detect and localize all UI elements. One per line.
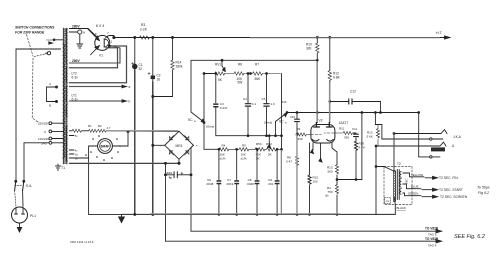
LT1 labels [72,94,79,102]
svg-text:R1: R1 [88,124,92,128]
grid resistor R10b 330 right [337,131,354,134]
HT rail [114,37,446,39]
svg-text:J.K.A: J.K.A [453,135,462,139]
tap 240 [49,141,52,144]
T2 primary winding [394,171,395,202]
svg-text:C12: C12 [350,90,356,94]
grid capacitor C11 [355,133,357,141]
resistor R12 6.8K anode feed right [329,38,331,71]
grey lead label [206,125,214,129]
jack JKA break contact [382,138,443,140]
capacitor C1 32 [134,70,136,214]
svg-text:R9: R9 [297,127,301,131]
svg-text:YELLOW: YELLOW [411,173,423,177]
wire bottom 280V tap to V1 anode 2 [69,46,120,64]
svg-text:R6: R6 [238,63,242,67]
svg-text:16: 16 [157,78,161,82]
svg-text:V2: V2 [319,119,323,123]
centre-tap ground [77,34,83,48]
capacitor C5 1.0 [266,74,268,136]
svg-text:S.A.: S.A. [26,184,32,188]
double triode V2 12AT7 [311,125,335,144]
wire mains live to switch [16,49,61,181]
PRI tag [385,198,391,204]
svg-text:T2 SEC. FIN.: T2 SEC. FIN. [439,176,459,180]
svg-text:·0019: ·0019 [226,182,234,186]
svg-text:5K: 5K [268,153,272,157]
switch S.A. [15,180,17,182]
resistor R3b [98,129,107,132]
svg-text:T2 SEC. START: T2 SEC. START [439,188,463,192]
svg-text:330: 330 [298,137,303,141]
svg-text:FOR 230V RANGE: FOR 230V RANGE [15,31,45,35]
T2 secondary leads [403,173,424,177]
svg-text:32: 32 [139,67,143,71]
capacitor C8 .0048 [256,149,258,214]
wire C12 output to jack [375,113,382,140]
HT winding centre-tap circle [78,30,82,34]
svg-text:SWITCH CONNECTIONS: SWITCH CONNECTIONS [15,26,55,30]
note to 50us [477,186,490,196]
scan smear overlays [107,38,441,241]
svg-text:5·6K: 5·6K [367,135,373,139]
svg-text:PL1: PL1 [30,214,36,218]
potentiometer RV1 5K [204,73,215,75]
heater pin arrow [320,143,322,158]
svg-text:GREEN: GREEN [408,192,418,196]
svg-text:32K: 32K [306,47,313,51]
T1 secondary HT winding (right bumps) [66,29,68,64]
svg-text:SEE Fig. 6.2: SEE Fig. 6.2 [454,234,485,240]
resistor R4 10K [219,148,239,151]
capacitor C2 16 [152,82,154,214]
tap 220/230 [49,122,52,125]
switch SCa arm [191,112,203,121]
svg-text:(Grey): (Grey) [264,121,272,125]
svg-text:C4: C4 [243,97,247,101]
switch SCb arm [276,114,286,122]
footnote [70,240,94,244]
heater wire with resistor R1 [69,130,72,132]
svg-text:C11: C11 [352,127,357,131]
T1 lamp winding [66,126,68,161]
tap marker circle on mains wire [47,52,50,55]
chassis ground on bus [89,213,122,215]
cathode resistor R14b 750 [335,185,338,194]
svg-text:100: 100 [313,180,318,184]
svg-text:±1%: ±1% [220,156,226,160]
svg-text:180k: 180k [176,65,183,69]
T2 core [396,170,398,200]
svg-text:R5: R5 [242,143,246,147]
capacitor C6 .0048 [218,149,220,214]
svg-text:·001: ·001 [267,182,273,186]
cap select top rail [216,135,282,137]
capacitor C9 .001 [276,149,278,214]
cathode resistor R13 560 [332,143,337,165]
svg-text:R5b: R5b [256,142,262,146]
LT2 labels [72,72,79,80]
bottom feed line to tag (upper) [191,230,438,232]
svg-text:C14: C14 [167,171,173,175]
reservoir node wire [165,163,167,241]
resistor R7 56K [251,72,281,75]
svg-text:6·3v: 6·3v [72,76,79,80]
grid leak resistor R8 0.47 [296,135,298,157]
feedback vertical from coupling line [361,113,363,180]
svg-text:C10: C10 [290,115,296,119]
tag labels [425,226,485,247]
capacitor C3 0.047 [213,103,218,105]
svg-text:280V: 280V [72,59,81,63]
svg-text:N: N [83,31,85,35]
svg-text:6M4F: 6M4F [101,145,110,149]
svg-text:V1: V1 [99,54,103,58]
svg-text:BLACK: BLACK [397,206,407,210]
jack JKB tip contact [376,142,446,146]
svg-text:TAG 5: TAG 5 [428,232,437,236]
T2 primary feed left [375,146,377,214]
svg-text:110/210: 110/210 [38,137,49,141]
svg-text:TAG 4: TAG 4 [428,243,437,247]
potentiometer RV2 5K [267,148,282,151]
svg-text:TO V82B: TO V82B [425,226,439,230]
jack JKA tip contact [394,130,447,134]
svg-text:b: b [129,100,131,104]
svg-text:B: B [49,104,51,108]
svg-text:·0048: ·0048 [206,182,214,186]
resistor R6 10K 5W [225,72,251,75]
svg-text:2·2K: 2·2K [140,28,148,32]
resistor R5 10K [239,148,255,151]
T1 bottom tap stub [69,157,88,159]
svg-text:+: + [196,144,198,148]
svg-text:6 X 4: 6 X 4 [96,24,104,28]
resistor R16 4.7K [354,141,357,180]
svg-text:5K: 5K [256,156,260,160]
anode feed left from feedback loop [316,60,318,122]
bottom feed line to tag (lower) [166,240,438,242]
resistor R3 2.2K [140,36,150,39]
capacitor C4 0.1 [247,74,249,136]
bridge right vertex wire down [191,145,194,231]
tap 110/210 [49,137,52,140]
coupling capacitor C12 [329,101,331,103]
V1 cathode to HT rail [106,36,114,39]
svg-text:0·1: 0·1 [252,102,257,106]
svg-text:0·047: 0·047 [220,106,228,110]
tap 0 [49,130,52,133]
svg-text:(Grey): (Grey) [206,125,214,129]
resistor R17 5.6K [377,125,379,129]
T1 primary winding (left bumps) [63,44,65,158]
tap labels [38,122,49,146]
wire 240V tap to switch [24,143,49,181]
svg-text:±1%: ±1% [241,156,247,160]
svg-text:SC: SC [188,118,193,122]
cap C10 on grid [296,113,298,134]
timing capacitor column C3 [215,74,217,136]
lamp right wire up to heater line [112,132,128,147]
T2 primary feed from jack [393,134,395,172]
svg-text:560: 560 [328,170,333,174]
svg-text:56K: 56K [255,77,262,81]
svg-text:220/230: 220/230 [38,122,49,126]
svg-text:Fig 6.2: Fig 6.2 [478,191,489,195]
T1 label [61,166,65,170]
svg-text:PRI: PRI [386,201,390,203]
svg-text:R2: R2 [98,124,102,128]
svg-text:BLUE: BLUE [411,185,419,189]
resistor R14 180k vertical [172,38,174,61]
svg-text:0: 0 [44,130,46,134]
svg-text:SC: SC [279,120,284,124]
resistor R10 32K vertical [316,38,318,44]
svg-text:R3: R3 [141,23,145,27]
transformer T1 core [63,28,67,164]
T2 secondary winding [400,172,401,195]
capacitor C7 .0019 [236,149,238,214]
svg-text:R11: R11 [339,127,345,131]
capacitor C14 4u [166,174,192,176]
svg-text:6·8K: 6·8K [333,76,341,80]
thick lead T1 to reservoir node [69,162,179,164]
svg-text:T1: T1 [61,166,65,170]
svg-text:RV2: RV2 [266,142,272,146]
svg-text:To 50µs: To 50µs [477,186,490,190]
ground bus [122,213,396,215]
resistor R5b 30K [255,148,267,151]
T1 LT1 winding [66,86,68,102]
bridge bottom vertex to smoothing rail [178,159,180,163]
resistor R9 330 grid stopper [297,133,308,136]
LT1 wire b [69,100,123,102]
V1 heater wires to LT2 winding [69,48,117,68]
svg-text:1·0: 1·0 [270,102,275,106]
label N.O tap [47,38,53,42]
svg-text:5W: 5W [238,81,243,85]
svg-text:240: 240 [41,142,46,146]
svg-text:4µ: 4µ [169,176,173,180]
jack body [431,147,445,151]
BLACK lead to chassis [394,198,395,215]
resistor R2 [89,129,98,132]
svg-text:SEC: SEC [405,179,409,184]
lamp mounting dots [85,135,121,161]
wire lamp return down to ground bus [89,146,98,214]
svg-text:T2: T2 [397,162,401,166]
svg-text:N.O: N.O [47,38,53,42]
ground at T1 bottom [56,164,61,170]
svg-text:0·47: 0·47 [286,160,292,164]
cathode resistor R15 100 [312,143,314,150]
svg-text:(b): (b) [325,194,328,198]
rectifier V1 6X4 [95,35,110,50]
plug PL1 [12,207,28,223]
svg-text:330: 330 [344,136,349,140]
LT1 wire a [69,86,123,88]
svg-text:R4: R4 [222,143,226,147]
annotation dashed leader lines [27,35,34,57]
long coupling line [288,112,419,114]
svg-text:R7: R7 [255,63,259,67]
output transformer T2 dashed enclosure [384,166,412,204]
feedback loop wire [191,60,317,112]
voltage selector link A-B [47,87,57,102]
label 280V bottom [72,59,81,63]
resistor column R4b [281,100,287,104]
annotation text: switch connections note [15,26,55,35]
junction to feedback [336,175,338,185]
svg-text:4.7: 4.7 [107,126,111,130]
svg-text:·0048: ·0048 [246,182,254,186]
dial lamp ILP1 [98,139,113,154]
svg-text:CRO 1419 / A 14.9: CRO 1419 / A 14.9 [70,240,94,244]
svg-text:H.T.: H.T. [436,31,443,35]
svg-text:12AT7: 12AT7 [339,121,349,125]
svg-text:C5: C5 [262,97,266,101]
svg-text:280V: 280V [72,25,81,29]
SEC tag [405,179,409,184]
T1 winding tap stubs [69,136,74,155]
bridge left vertex to ground line [153,144,165,146]
label 280V top [72,25,81,29]
svg-text:RV1: RV1 [215,63,221,67]
bridge rectifier MR1 [165,131,194,159]
svg-text:MR1: MR1 [176,144,183,148]
wire top 280V tap to V1 anode [69,29,97,38]
svg-text:A: A [49,82,51,86]
wire from ratio row through SCa contact down [204,74,219,150]
svg-text:a: a [129,85,131,89]
jack JKB sleeve contact [419,113,440,157]
svg-text:T2 SEC. SCREEN: T2 SEC. SCREEN [440,195,468,199]
T1 aux winding [66,104,68,117]
T1 LT2 winding [66,67,68,83]
